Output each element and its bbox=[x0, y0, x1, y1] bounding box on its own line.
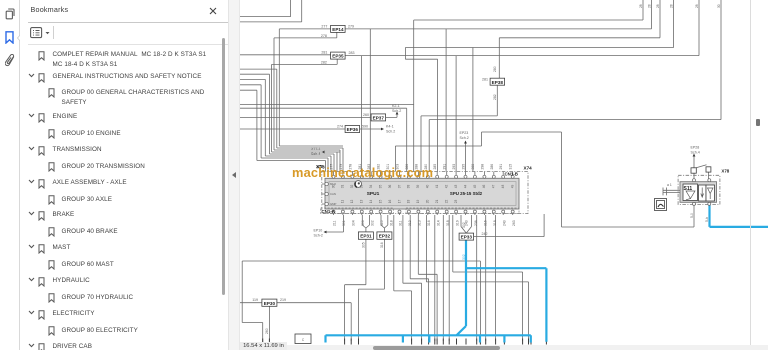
svg-text:17: 17 bbox=[397, 200, 401, 204]
svg-text:11: 11 bbox=[341, 200, 345, 204]
svg-text:282: 282 bbox=[493, 94, 497, 100]
svg-text:28: 28 bbox=[695, 4, 699, 8]
svg-text:EP35: EP35 bbox=[332, 54, 344, 59]
svg-text:279: 279 bbox=[348, 24, 354, 28]
svg-text:5-0: 5-0 bbox=[690, 213, 694, 218]
svg-text:37: 37 bbox=[397, 185, 401, 189]
svg-text:119: 119 bbox=[252, 298, 258, 302]
svg-text:Sch.2: Sch.2 bbox=[460, 136, 469, 140]
svg-text:32: 32 bbox=[350, 184, 354, 188]
svg-text:316: 316 bbox=[427, 220, 431, 226]
svg-text:EP14: EP14 bbox=[332, 27, 344, 32]
svg-text:21: 21 bbox=[435, 200, 439, 204]
svg-text:19: 19 bbox=[416, 199, 420, 203]
svg-text:S11: S11 bbox=[684, 186, 693, 192]
svg-text:CN1-B: CN1-B bbox=[505, 172, 518, 177]
svg-text:306: 306 bbox=[361, 220, 365, 226]
svg-text:12: 12 bbox=[350, 199, 354, 203]
svg-text:EP38: EP38 bbox=[492, 80, 504, 85]
svg-text:5-b: 5-b bbox=[705, 217, 709, 222]
svg-text:288: 288 bbox=[471, 164, 475, 170]
svg-text:22: 22 bbox=[444, 199, 448, 203]
svg-text:316: 316 bbox=[380, 242, 384, 248]
svg-text:28: 28 bbox=[639, 4, 643, 8]
svg-text:X77-1: X77-1 bbox=[311, 147, 321, 151]
svg-text:15: 15 bbox=[378, 200, 382, 204]
svg-text:277: 277 bbox=[321, 24, 327, 28]
svg-text:313: 313 bbox=[418, 220, 422, 226]
svg-text:283: 283 bbox=[349, 51, 355, 55]
svg-text:302: 302 bbox=[462, 222, 466, 228]
svg-text:282: 282 bbox=[321, 60, 327, 64]
svg-text:590: 590 bbox=[362, 125, 368, 129]
svg-text:242: 242 bbox=[482, 232, 488, 236]
svg-text:Sch.4: Sch.4 bbox=[691, 151, 700, 155]
svg-text:211: 211 bbox=[333, 220, 337, 226]
svg-text:Sch.2: Sch.2 bbox=[386, 130, 395, 134]
svg-text:X74: X74 bbox=[524, 166, 533, 171]
svg-text:31: 31 bbox=[341, 185, 345, 189]
svg-text:46: 46 bbox=[482, 184, 486, 188]
svg-text:280: 280 bbox=[493, 66, 497, 72]
svg-text:281: 281 bbox=[321, 50, 327, 54]
svg-text:13: 13 bbox=[360, 199, 364, 203]
svg-text:Sch.2: Sch.2 bbox=[392, 109, 401, 113]
svg-text:EP37: EP37 bbox=[373, 116, 385, 121]
svg-text:23: 23 bbox=[454, 199, 458, 203]
svg-text:312: 312 bbox=[408, 220, 412, 226]
svg-text:EP23: EP23 bbox=[460, 131, 469, 135]
svg-text:260: 260 bbox=[363, 113, 369, 117]
svg-text:45: 45 bbox=[473, 184, 477, 188]
svg-text:20: 20 bbox=[426, 200, 430, 204]
svg-text:MH2: MH2 bbox=[330, 182, 336, 186]
svg-text:302: 302 bbox=[462, 254, 466, 260]
svg-text:35: 35 bbox=[378, 185, 382, 189]
svg-text:18: 18 bbox=[407, 200, 411, 204]
svg-text:286: 286 bbox=[490, 164, 494, 170]
svg-text:298: 298 bbox=[480, 164, 484, 170]
svg-text:319: 319 bbox=[455, 220, 459, 226]
svg-text:311: 311 bbox=[399, 220, 403, 226]
svg-text:49: 49 bbox=[510, 184, 514, 188]
svg-text:28: 28 bbox=[647, 4, 651, 8]
svg-text:318: 318 bbox=[493, 220, 497, 226]
svg-text:301: 301 bbox=[342, 220, 346, 226]
svg-text:304: 304 bbox=[352, 220, 356, 226]
svg-text:310: 310 bbox=[380, 220, 384, 226]
svg-text:302: 302 bbox=[370, 220, 374, 226]
svg-text:39: 39 bbox=[416, 184, 420, 188]
svg-text:47: 47 bbox=[492, 185, 496, 189]
svg-text:318: 318 bbox=[446, 220, 450, 226]
svg-text:a 1: a 1 bbox=[667, 183, 672, 187]
svg-text:GMP: GMP bbox=[330, 202, 337, 206]
svg-text:EP30: EP30 bbox=[264, 301, 276, 306]
svg-text:Sch-2: Sch-2 bbox=[314, 234, 323, 238]
svg-text:EP36: EP36 bbox=[347, 127, 359, 132]
svg-text:278: 278 bbox=[321, 34, 327, 38]
svg-text:291: 291 bbox=[443, 164, 447, 170]
svg-text:48: 48 bbox=[501, 185, 505, 189]
svg-text:30: 30 bbox=[717, 4, 721, 8]
svg-text:316: 316 bbox=[484, 220, 488, 226]
svg-text:CAN: CAN bbox=[330, 192, 336, 196]
svg-text:EP10: EP10 bbox=[314, 229, 323, 233]
svg-text:293: 293 bbox=[452, 164, 456, 170]
svg-text:28: 28 bbox=[656, 4, 660, 8]
svg-text:295: 295 bbox=[462, 164, 466, 170]
svg-text:41: 41 bbox=[435, 185, 439, 189]
svg-text:14: 14 bbox=[369, 200, 373, 204]
svg-text:38: 38 bbox=[407, 185, 411, 189]
svg-text:43: 43 bbox=[454, 184, 458, 188]
svg-text:SPU1: SPU1 bbox=[367, 191, 380, 197]
svg-text:EP28: EP28 bbox=[691, 146, 700, 150]
svg-text:16: 16 bbox=[388, 199, 392, 203]
svg-text:K4-1: K4-1 bbox=[386, 125, 394, 129]
svg-text:305: 305 bbox=[362, 242, 366, 248]
svg-text:28: 28 bbox=[669, 4, 673, 8]
svg-text:243: 243 bbox=[502, 220, 506, 226]
svg-text:42: 42 bbox=[444, 184, 448, 188]
svg-text:34: 34 bbox=[369, 185, 373, 189]
svg-text:40: 40 bbox=[426, 185, 430, 189]
svg-text:X78: X78 bbox=[721, 168, 729, 173]
svg-text:SPU 25-15 Std2: SPU 25-15 Std2 bbox=[450, 191, 483, 196]
svg-text:236: 236 bbox=[474, 220, 478, 226]
svg-text:314: 314 bbox=[436, 220, 440, 226]
svg-text:Sch-4: Sch-4 bbox=[311, 152, 320, 156]
svg-text:318: 318 bbox=[389, 220, 393, 226]
svg-text:36: 36 bbox=[388, 184, 392, 188]
svg-text:260: 260 bbox=[265, 328, 269, 334]
svg-text:274: 274 bbox=[337, 125, 343, 129]
svg-text:263: 263 bbox=[512, 220, 516, 226]
svg-text:EP32: EP32 bbox=[379, 234, 391, 239]
svg-text:K2-1: K2-1 bbox=[392, 104, 400, 108]
svg-text:315: 315 bbox=[509, 164, 513, 170]
svg-text:EP33: EP33 bbox=[461, 235, 473, 240]
svg-text:CN1-A: CN1-A bbox=[322, 209, 336, 214]
svg-text:219: 219 bbox=[280, 298, 286, 302]
svg-text:EP31: EP31 bbox=[360, 234, 372, 239]
svg-text:33: 33 bbox=[360, 184, 364, 188]
svg-text:44: 44 bbox=[463, 185, 467, 189]
svg-text:291: 291 bbox=[499, 164, 503, 170]
svg-text:281: 281 bbox=[482, 77, 488, 81]
